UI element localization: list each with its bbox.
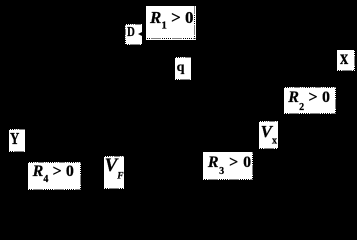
resistor R2 value label "R2 > 0": [284, 87, 336, 114]
resistor R1 value label "R1 > 0": [146, 6, 196, 40]
resistor R3 value label "R3 > 0": [203, 152, 253, 179]
voltage VF label: [104, 156, 124, 189]
resistor R4 value label "R4 > 0": [28, 162, 81, 190]
node q label: [175, 57, 191, 80]
node x label: [337, 50, 355, 71]
node Y label: [9, 129, 25, 153]
diode D node label: [125, 24, 142, 46]
arrowhead notch over diode label box edge: [138, 32, 142, 36]
voltage Vx label: [259, 121, 279, 149]
